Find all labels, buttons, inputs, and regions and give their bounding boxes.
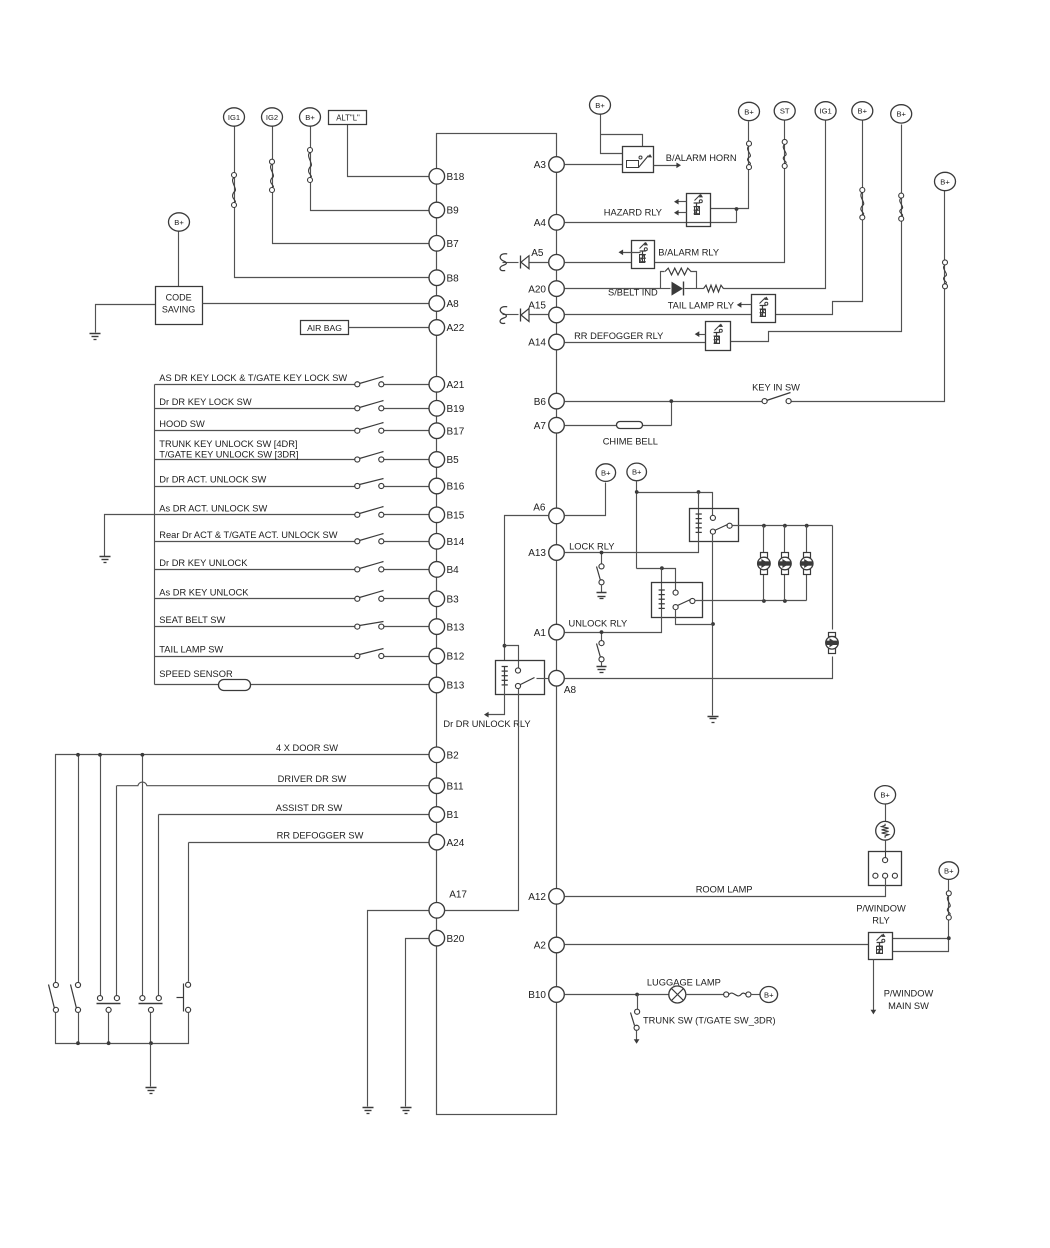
CHIME BELL element <box>617 422 643 429</box>
pin B20 <box>429 930 465 946</box>
fuse on ST line <box>782 139 787 168</box>
svg-text:B9: B9 <box>447 206 460 217</box>
pin A7 <box>534 417 565 433</box>
wire row B13 <box>155 626 355 628</box>
wire AIR BAG to A22 <box>349 327 429 329</box>
svg-text:CHIME BELL: CHIME BELL <box>603 436 658 446</box>
switch AS DR KEY LOCK & T/GATE KEY LOCK SW <box>355 377 384 387</box>
wire unlock coil to A1 <box>565 609 662 633</box>
svg-text:B20: B20 <box>447 934 465 945</box>
wire row B12 <box>155 656 355 658</box>
terminal B+ <box>875 786 896 804</box>
svg-text:B2: B2 <box>447 751 460 762</box>
wire A4 to hazard relay <box>565 207 739 222</box>
wire A2 to p-window relay <box>565 944 869 946</box>
wire ASSIST DR SW to B1 <box>159 814 429 816</box>
wire B+ fused to hazard relay <box>711 122 749 209</box>
wire lock coil to A13 <box>565 533 699 553</box>
switch RR defogger push <box>177 982 191 1012</box>
svg-text:B+: B+ <box>595 101 605 110</box>
wire A15 to tail lamp relay <box>565 314 752 316</box>
svg-text:B19: B19 <box>447 404 465 415</box>
svg-text:TAIL LAMP SW: TAIL LAMP SW <box>159 645 223 655</box>
svg-text:B8: B8 <box>447 273 460 284</box>
diode on A5 line <box>503 256 549 269</box>
svg-text:A6: A6 <box>533 503 546 514</box>
svg-text:B17: B17 <box>447 426 465 437</box>
relay TAIL LAMP RLY box <box>752 295 776 323</box>
wire B10 to luggage lamp <box>565 993 669 997</box>
svg-text:P/WINDOW: P/WINDOW <box>884 989 934 999</box>
svg-text:A13: A13 <box>528 548 546 559</box>
svg-text:A15: A15 <box>528 301 546 312</box>
pin B2 <box>429 747 459 763</box>
svg-text:B+: B+ <box>896 110 906 119</box>
resistor S/BELT series <box>704 285 724 292</box>
pin A4 <box>534 215 565 231</box>
pin B9 <box>429 202 459 218</box>
terminal ST <box>774 102 795 120</box>
wire unlock output to actuators <box>695 599 807 603</box>
wire assist switch drop <box>158 815 160 996</box>
wire lock relay to ground <box>711 535 715 716</box>
wire row B19 <box>155 408 355 410</box>
switch TAIL LAMP SW <box>355 649 384 659</box>
ground B15 row <box>100 557 111 563</box>
pin A8 <box>549 670 577 695</box>
svg-text:RR DEFOGGER SW: RR DEFOGGER SW <box>277 830 364 840</box>
wire A14 to defogger relay <box>565 342 706 344</box>
pin B13 <box>429 619 465 635</box>
pin B12 <box>429 648 465 664</box>
wire A7 to chime bell <box>565 425 672 427</box>
pin A1 <box>534 624 565 640</box>
svg-text:4 X DOOR SW: 4 X DOOR SW <box>276 743 338 753</box>
wire dr-unlock output to A8 <box>537 678 549 680</box>
fuse on B+ defogger line <box>899 193 904 221</box>
wire lock output to actuators <box>733 524 833 528</box>
svg-text:As DR ACT. UNLOCK SW: As DR ACT. UNLOCK SW <box>159 503 267 513</box>
wire B15 to ground <box>105 515 155 557</box>
AIR BAG box <box>301 321 349 335</box>
svg-text:B7: B7 <box>447 239 460 250</box>
switch KEY IN SW <box>762 393 791 404</box>
svg-text:B4: B4 <box>447 565 460 576</box>
pin B19 <box>429 401 465 417</box>
wire A3 to horn relay <box>565 164 623 166</box>
wire B6 to key-in switch <box>565 401 763 403</box>
lamp LUGGAGE LAMP <box>669 986 686 1003</box>
pin B5 <box>429 452 459 468</box>
svg-text:A22: A22 <box>447 323 465 334</box>
svg-text:ST: ST <box>780 107 790 116</box>
pin B3 <box>429 591 459 607</box>
svg-text:B+: B+ <box>940 177 950 186</box>
svg-text:B5: B5 <box>447 455 460 466</box>
pin A13 <box>528 545 564 561</box>
svg-text:A7: A7 <box>534 421 547 432</box>
wire B+ to room lamp fusible link <box>885 805 887 822</box>
pin B10 <box>528 987 564 1003</box>
wire room lamp to A12 <box>565 879 886 897</box>
arrow to p-window main switch <box>871 960 877 1015</box>
svg-text:MAIN SW: MAIN SW <box>888 1001 929 1011</box>
wire A17 to ground <box>368 911 429 1107</box>
room lamp unit box <box>869 841 902 886</box>
wire dr-unlock throw to A17 <box>445 689 519 911</box>
LED S/BELT IND <box>672 282 684 296</box>
svg-text:SAVING: SAVING <box>162 305 195 315</box>
pin A2 <box>534 937 565 953</box>
wire driver actuator to A8 <box>565 657 833 679</box>
terminal B+ <box>739 102 760 120</box>
switch TRUNK SW <box>631 995 640 1044</box>
pin B7 <box>429 236 459 252</box>
SPEED SENSOR element <box>219 680 251 691</box>
svg-text:A12: A12 <box>528 892 546 903</box>
svg-text:As DR KEY UNLOCK: As DR KEY UNLOCK <box>159 587 249 597</box>
svg-text:B18: B18 <box>447 172 465 183</box>
wire door switch drop 4 <box>142 755 144 996</box>
switch Dr DR ACT. UNLOCK SW <box>355 479 384 489</box>
pin A22 <box>429 320 465 336</box>
wire B20 to ground <box>406 939 429 1107</box>
pin A5 <box>531 248 564 270</box>
svg-text:A20: A20 <box>528 284 546 295</box>
ground CODE SAVING <box>90 334 101 340</box>
fuse on B+ key-in line <box>943 260 948 289</box>
wire branch to relay contact <box>505 646 519 669</box>
wire CODE SAVING to A8 <box>203 303 429 305</box>
pin B6 <box>534 393 565 409</box>
switch A13 diagnostic <box>597 551 605 593</box>
svg-text:A1: A1 <box>534 628 547 639</box>
svg-text:B+: B+ <box>764 990 774 999</box>
terminal IG2 <box>262 108 283 126</box>
switch As DR ACT. UNLOCK SW <box>355 507 384 518</box>
svg-text:RR DEFOGGER RLY: RR DEFOGGER RLY <box>574 331 663 341</box>
pin A14 <box>528 334 564 350</box>
pin B16 <box>429 478 465 494</box>
wire A6 to dr-unlock relay coil <box>503 516 549 661</box>
svg-text:RLY: RLY <box>872 916 889 926</box>
connector and B+ luggage <box>724 992 761 997</box>
svg-text:ASSIST DR SW: ASSIST DR SW <box>276 803 343 813</box>
wire CODE SAVING to ground <box>96 305 156 333</box>
svg-text:B3: B3 <box>447 595 460 606</box>
svg-text:B+: B+ <box>601 468 611 477</box>
wire 4X DOOR SW to B2 <box>56 755 429 985</box>
svg-text:B+: B+ <box>744 107 754 116</box>
fuse on IG1 line <box>232 173 237 208</box>
terminal B+ <box>596 464 616 482</box>
pin A8 <box>429 296 459 312</box>
wire row B16 <box>155 486 355 488</box>
wire B+ feed to horn relay <box>601 115 643 154</box>
pin B15 <box>429 507 465 523</box>
svg-text:A2: A2 <box>534 941 547 952</box>
svg-text:A4: A4 <box>534 218 547 229</box>
svg-text:P/WINDOW: P/WINDOW <box>856 904 906 914</box>
svg-text:AS DR KEY LOCK & T/GATE KEY LO: AS DR KEY LOCK & T/GATE KEY LOCK SW <box>159 373 347 383</box>
relay LOCK RLY box <box>690 509 739 542</box>
fusible link room lamp <box>876 821 895 840</box>
svg-text:B/ALARM HORN: B/ALARM HORN <box>666 153 737 163</box>
terminal IG1 <box>815 102 836 120</box>
switch door switch 2 <box>71 982 81 1012</box>
svg-text:IG1: IG1 <box>228 113 240 122</box>
svg-text:LOCK RLY: LOCK RLY <box>569 542 614 552</box>
svg-text:A8: A8 <box>564 685 577 696</box>
motor actuator driver door lock <box>826 633 839 654</box>
fuse on B+ p-window line <box>946 891 951 920</box>
svg-text:B+: B+ <box>880 791 890 800</box>
switch Dr DR KEY LOCK SW <box>355 401 384 411</box>
S/BELT IND parallel branch <box>661 268 697 288</box>
arrow defogger output <box>695 331 706 337</box>
switch SEAT BELT SW <box>355 622 384 630</box>
svg-text:ALT"L": ALT"L" <box>336 113 360 122</box>
svg-text:B+: B+ <box>174 218 184 227</box>
wire row B5 <box>155 459 355 461</box>
wire B+ fused to p-window relay <box>893 880 951 952</box>
wire lock line to driver actuator <box>832 526 834 630</box>
wire ALT-L to B18 <box>348 125 429 177</box>
wire lamp to connector <box>686 994 724 996</box>
fuse on B+ line <box>308 148 313 183</box>
wire lock coil feed <box>698 493 700 515</box>
wire actuator 2 drops <box>784 526 786 553</box>
svg-text:Dr DR KEY LOCK SW: Dr DR KEY LOCK SW <box>159 397 252 407</box>
wire switch bus bottom <box>56 1013 189 1046</box>
svg-text:B11: B11 <box>447 781 464 792</box>
terminal B+ <box>939 862 959 880</box>
svg-text:B+: B+ <box>305 113 315 122</box>
relay HAZARD RLY box <box>687 194 711 227</box>
wire IG2 to B7 <box>273 127 429 244</box>
svg-text:TRUNK SW (T/GATE SW_3DR): TRUNK SW (T/GATE SW_3DR) <box>643 1015 776 1025</box>
wire B+ fused to tail lamp relay <box>776 121 863 315</box>
svg-text:T/GATE KEY UNLOCK SW [3DR]: T/GATE KEY UNLOCK SW [3DR] <box>159 449 298 459</box>
wire A20 to indicator <box>565 288 661 290</box>
switch Rear Dr ACT & T/GATE ACT. UNLOCK SW <box>355 534 384 544</box>
label P/WINDOW RLY <box>856 904 906 926</box>
svg-text:A8: A8 <box>447 299 460 310</box>
svg-text:A5: A5 <box>531 248 544 259</box>
wire actuator 3 drops <box>806 526 808 553</box>
svg-text:A24: A24 <box>447 838 465 849</box>
wire unlock coil feed <box>661 569 663 591</box>
ground A17 <box>363 1108 374 1114</box>
svg-text:B+: B+ <box>944 866 954 875</box>
svg-text:UNLOCK RLY: UNLOCK RLY <box>569 619 628 629</box>
svg-text:TRUNK KEY UNLOCK SW [4DR]: TRUNK KEY UNLOCK SW [4DR] <box>159 439 297 449</box>
fuse on B+ tail line <box>860 188 865 220</box>
svg-text:B16: B16 <box>447 482 465 493</box>
svg-text:ROOM LAMP: ROOM LAMP <box>696 885 753 895</box>
pin A3 <box>534 157 565 173</box>
switch TRUNK KEY UNLOCK SW [4DR] <box>355 452 384 463</box>
ground lock relay <box>708 717 719 723</box>
wire rail to unlock relay <box>637 566 676 592</box>
label P/WINDOW MAIN SW <box>884 989 934 1012</box>
pin A15 <box>528 301 564 323</box>
wire row B4 <box>155 569 355 571</box>
svg-text:B6: B6 <box>534 397 547 408</box>
relay P/WINDOW RLY box <box>869 933 893 960</box>
arrow hazard output 2 <box>674 210 687 216</box>
wire B+ rail to lock relay <box>635 481 713 569</box>
switch As DR KEY UNLOCK <box>355 591 384 602</box>
relay Dr DR UNLOCK RLY box <box>496 661 545 695</box>
svg-text:IG2: IG2 <box>266 113 278 122</box>
pin A24 <box>429 834 465 850</box>
wire A6 to B+ <box>565 483 606 516</box>
CODE SAVING unit box <box>156 287 203 325</box>
svg-text:AIR BAG: AIR BAG <box>307 323 342 333</box>
terminal B+ <box>760 987 778 1003</box>
relay B/ALARM HORN box <box>623 147 654 173</box>
wire bus to ground <box>150 1044 152 1087</box>
terminal B+ <box>300 108 321 126</box>
svg-text:A21: A21 <box>447 380 465 391</box>
svg-text:B/ALARM RLY: B/ALARM RLY <box>658 248 719 258</box>
wire chime bell branch <box>669 399 673 425</box>
ground A1 switch <box>597 667 607 673</box>
svg-text:Dr DR KEY UNLOCK: Dr DR KEY UNLOCK <box>159 558 248 568</box>
svg-text:KEY IN SW: KEY IN SW <box>752 383 800 393</box>
switch HOOD SW <box>355 423 384 434</box>
wire B+ to B9 <box>311 127 429 211</box>
svg-text:B15: B15 <box>447 511 465 522</box>
svg-text:Dr DR ACT. UNLOCK SW: Dr DR ACT. UNLOCK SW <box>159 475 266 485</box>
terminal B+ <box>627 463 647 481</box>
switch door pair 2 <box>139 996 163 1013</box>
arrow b-alarm output <box>619 249 641 255</box>
pin A20 <box>528 281 564 297</box>
switch door switch 1 <box>49 982 59 1012</box>
pin B17 <box>429 423 465 439</box>
wire B+ to CODE SAVING <box>178 232 180 287</box>
wire resistor to LED node <box>697 288 704 290</box>
pin A6 <box>533 503 564 524</box>
wire row A21 <box>155 384 355 386</box>
wire IG1 fused to resistor <box>724 121 826 289</box>
wire DRIVER DR SW to B11 <box>117 782 429 786</box>
terminal IG1 <box>224 108 245 126</box>
wire B+ fused to key-in switch <box>792 191 945 402</box>
terminal B+ <box>935 172 956 190</box>
svg-text:B13: B13 <box>447 622 465 633</box>
wire RR DEFOGGER SW to A24 <box>189 842 429 844</box>
wire B+ fused to defogger relay <box>731 125 902 342</box>
wire-break symbol A5 <box>500 254 507 271</box>
pin B14 <box>429 534 465 550</box>
pin B8 <box>429 270 459 286</box>
svg-text:Rear Dr ACT & T/GATE ACT. UNLO: Rear Dr ACT & T/GATE ACT. UNLOCK SW <box>159 530 337 540</box>
switch door pair 1 <box>97 996 121 1013</box>
wire A5 to b-alarm relay <box>565 262 632 264</box>
pin B13 <box>429 677 465 693</box>
motor actuator door lock 3 <box>800 553 813 575</box>
ground B20 <box>401 1108 412 1114</box>
svg-text:B+: B+ <box>632 468 642 477</box>
terminal B+ <box>169 213 190 231</box>
svg-text:B13: B13 <box>447 681 465 692</box>
arrow hazard output 1 <box>674 199 687 205</box>
wire row B15 <box>155 514 355 516</box>
svg-text:SPEED SENSOR: SPEED SENSOR <box>159 669 233 679</box>
relay B/ALARM RLY box <box>632 241 655 269</box>
terminal B+ <box>852 102 873 120</box>
svg-text:DRIVER DR SW: DRIVER DR SW <box>278 774 347 784</box>
pin A21 <box>429 377 465 393</box>
svg-text:Dr DR UNLOCK RLY: Dr DR UNLOCK RLY <box>443 719 530 729</box>
wire unlock relay throw to ground line <box>676 610 713 625</box>
wire defogger switch drop <box>188 843 190 982</box>
wire door switch drop 2 <box>78 755 80 985</box>
wire actuator 1 drops <box>763 526 765 553</box>
wire row B14 <box>155 541 355 543</box>
svg-text:TAIL LAMP RLY: TAIL LAMP RLY <box>668 301 734 311</box>
svg-text:A3: A3 <box>534 160 547 171</box>
pin A12 <box>528 889 564 905</box>
pin B18 <box>429 169 465 185</box>
fuse on IG2 line <box>270 159 275 192</box>
svg-text:HAZARD RLY: HAZARD RLY <box>604 208 662 218</box>
ECU connector box outline <box>437 134 557 1115</box>
terminal B+ <box>590 96 611 114</box>
svg-text:A14: A14 <box>528 338 546 349</box>
svg-text:B10: B10 <box>528 990 546 1001</box>
wire driver switch drop <box>116 786 118 996</box>
wire SPEED SENSOR row <box>155 684 219 686</box>
terminal B+ <box>891 105 912 123</box>
pin A17 <box>429 890 467 919</box>
label B5 row <box>159 439 298 459</box>
motor actuator door lock 2 <box>779 553 792 575</box>
svg-text:CODE: CODE <box>166 293 192 303</box>
wire dr-unlock coil to arrow <box>484 685 505 718</box>
wire ST fused to b-alarm relay <box>655 121 785 263</box>
ground A13 switch <box>597 593 607 599</box>
terminal ALT"L" box <box>329 111 367 125</box>
svg-text:HOOD SW: HOOD SW <box>159 419 205 429</box>
wire door switch drop 3 <box>100 755 102 996</box>
svg-text:B1: B1 <box>447 810 460 821</box>
fuse on B+ hazard line <box>747 141 752 170</box>
pin B11 <box>429 778 464 794</box>
ground door switch bus <box>146 1088 157 1094</box>
wire-break symbol A15 <box>500 307 507 324</box>
svg-text:B14: B14 <box>447 537 465 548</box>
relay UNLOCK RLY box <box>652 583 703 618</box>
arrow tail lamp output <box>737 302 752 308</box>
arrow horn relay output <box>654 162 682 168</box>
svg-text:B12: B12 <box>447 652 465 663</box>
diode on A15 line <box>503 309 549 322</box>
pin B4 <box>429 562 459 578</box>
svg-text:SEAT BELT SW: SEAT BELT SW <box>159 615 225 625</box>
wire row B3 <box>155 598 355 600</box>
left bus wire <box>154 385 156 685</box>
switch A1 diagnostic <box>597 630 605 666</box>
motor actuator door lock 1 <box>758 553 771 575</box>
svg-text:B+: B+ <box>858 107 868 116</box>
wire IG1 to B8 <box>235 127 429 278</box>
svg-text:LUGGAGE LAMP: LUGGAGE LAMP <box>647 978 721 988</box>
svg-text:A17: A17 <box>449 890 467 901</box>
